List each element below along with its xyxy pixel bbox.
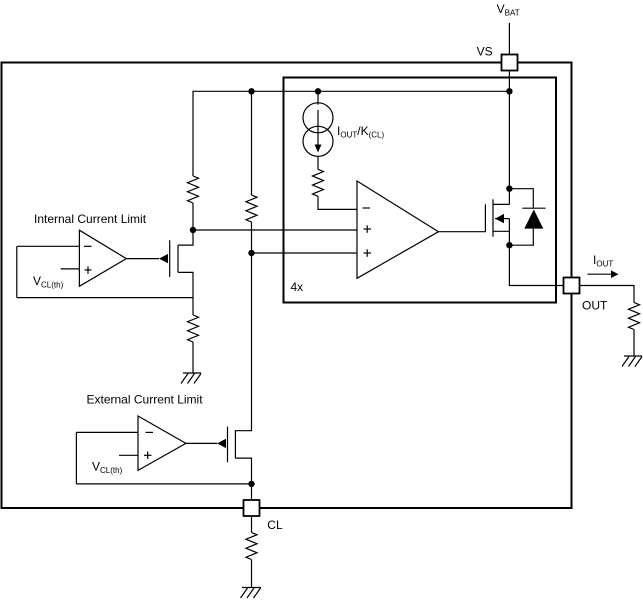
svg-text:CL: CL [267, 518, 283, 532]
ground (load) [622, 356, 642, 367]
wire node B to Q2 drain [235, 253, 251, 431]
transistor Q3 body arrow [495, 218, 509, 220]
transistor Q2 source stub [235, 458, 251, 500]
transistor Q3 channel bar [492, 199, 494, 236]
svg-text:External Current Limit: External Current Limit [87, 392, 204, 406]
node B [248, 250, 254, 256]
current source I_OUT/K(CL) top lead [317, 91, 319, 104]
junction top rail / VS drop [506, 88, 512, 94]
wire U2 feedback bottom [76, 483, 251, 485]
svg-text:OUT: OUT [582, 299, 608, 313]
wire OUT to load [580, 286, 635, 303]
U2 plus sign [144, 454, 152, 456]
wire node A to Q1 drain [178, 230, 193, 245]
U1 minus sign [84, 245, 92, 247]
gate arrow Q2 [217, 439, 226, 448]
wire RA to node A [192, 203, 194, 230]
pin OUT [564, 278, 580, 294]
wire R3 to ground [192, 342, 194, 373]
pin VS [502, 55, 518, 71]
current source arrow [317, 110, 319, 145]
outer box (device boundary) [2, 63, 572, 509]
diode D1 bottom wire [509, 229, 533, 246]
wire VS to drain node [508, 71, 510, 205]
svg-text:Internal Current Limit: Internal Current Limit [34, 212, 147, 226]
wire R_LOAD to ground [633, 330, 635, 357]
U3 plus sign 1 [364, 228, 372, 230]
resistor RA [188, 176, 199, 203]
wire U2 feedback left [75, 432, 77, 484]
arrow I_OUT [587, 273, 611, 275]
transistor Q1 source stub [178, 272, 193, 315]
junction top rail / RB [248, 88, 254, 94]
U3 minus sign [363, 207, 371, 209]
resistor RB [246, 195, 257, 222]
inner box (4x current sense block) [284, 78, 557, 303]
wire U2 inverting input [76, 431, 138, 433]
junction Q3 source node [506, 242, 512, 248]
resistor R3 (source resistor) [188, 315, 199, 342]
wire U1 output [126, 258, 159, 260]
transistor Q1 gate bar [169, 240, 171, 277]
wire source node to OUT [509, 245, 563, 285]
svg-text:VS: VS [477, 45, 493, 59]
U2 minus sign [146, 431, 154, 433]
wire R_CL to ground [251, 560, 253, 588]
svg-text:4x: 4x [291, 280, 304, 294]
junction Q2 source / feedback / CL [248, 481, 254, 487]
wire U2 output [186, 442, 217, 444]
U3 plus sign 2 [364, 252, 372, 254]
wire RA top lead [192, 91, 194, 176]
current source circle 1 [303, 103, 333, 133]
wire U2 + stub [119, 454, 138, 456]
wire node B to op-amp + [252, 252, 358, 254]
wire Q3 body/source to source node [508, 219, 510, 246]
wire top rail [193, 90, 509, 92]
junction Q3 drain node [506, 186, 512, 192]
transistor Q3 drain stub [493, 203, 509, 205]
wire U1 inverting input [17, 245, 80, 247]
transistor Q3 source stub [493, 230, 509, 232]
diode D1 triangle [524, 210, 543, 229]
wire node A to op-amp + [193, 229, 357, 231]
U1 plus sign [85, 269, 92, 271]
wire U1 + stub [61, 268, 80, 270]
wire current source to R4 [317, 156, 319, 169]
op-amp U3 (4x sense amp) [357, 181, 439, 278]
op-amp U2 (external current limit) [138, 416, 186, 470]
wire CL lead [251, 516, 253, 533]
wire RB top lead [251, 91, 253, 195]
junction top rail / current source [315, 88, 321, 94]
transistor Q1 channel bar [177, 245, 179, 272]
node A [190, 227, 196, 233]
diode D1 cathode bar [522, 207, 545, 209]
gate arrow Q1 [159, 254, 168, 263]
ground (internal limit) [181, 373, 201, 384]
current source circle 2 [303, 126, 333, 156]
wire U1 feedback left [16, 246, 18, 297]
wire R4 to op-amp U3 minus [318, 196, 357, 209]
diode D1 top wire [509, 189, 533, 209]
resistor R_CL [246, 533, 257, 560]
wire U1 feedback bottom [17, 297, 193, 299]
pin CL [244, 500, 260, 516]
resistor R_LOAD [629, 303, 640, 330]
wire RB to node B [251, 222, 253, 253]
wire V_BAT lead [508, 23, 510, 55]
wire U3 output / Q3 gate lead [439, 204, 486, 232]
op-amp U1 (internal current limit) [79, 230, 126, 286]
transistor Q2 gate bar [227, 427, 229, 463]
transistor Q2 channel bar [234, 430, 236, 458]
ground (CL) [241, 588, 262, 599]
resistor R4 [313, 169, 324, 196]
